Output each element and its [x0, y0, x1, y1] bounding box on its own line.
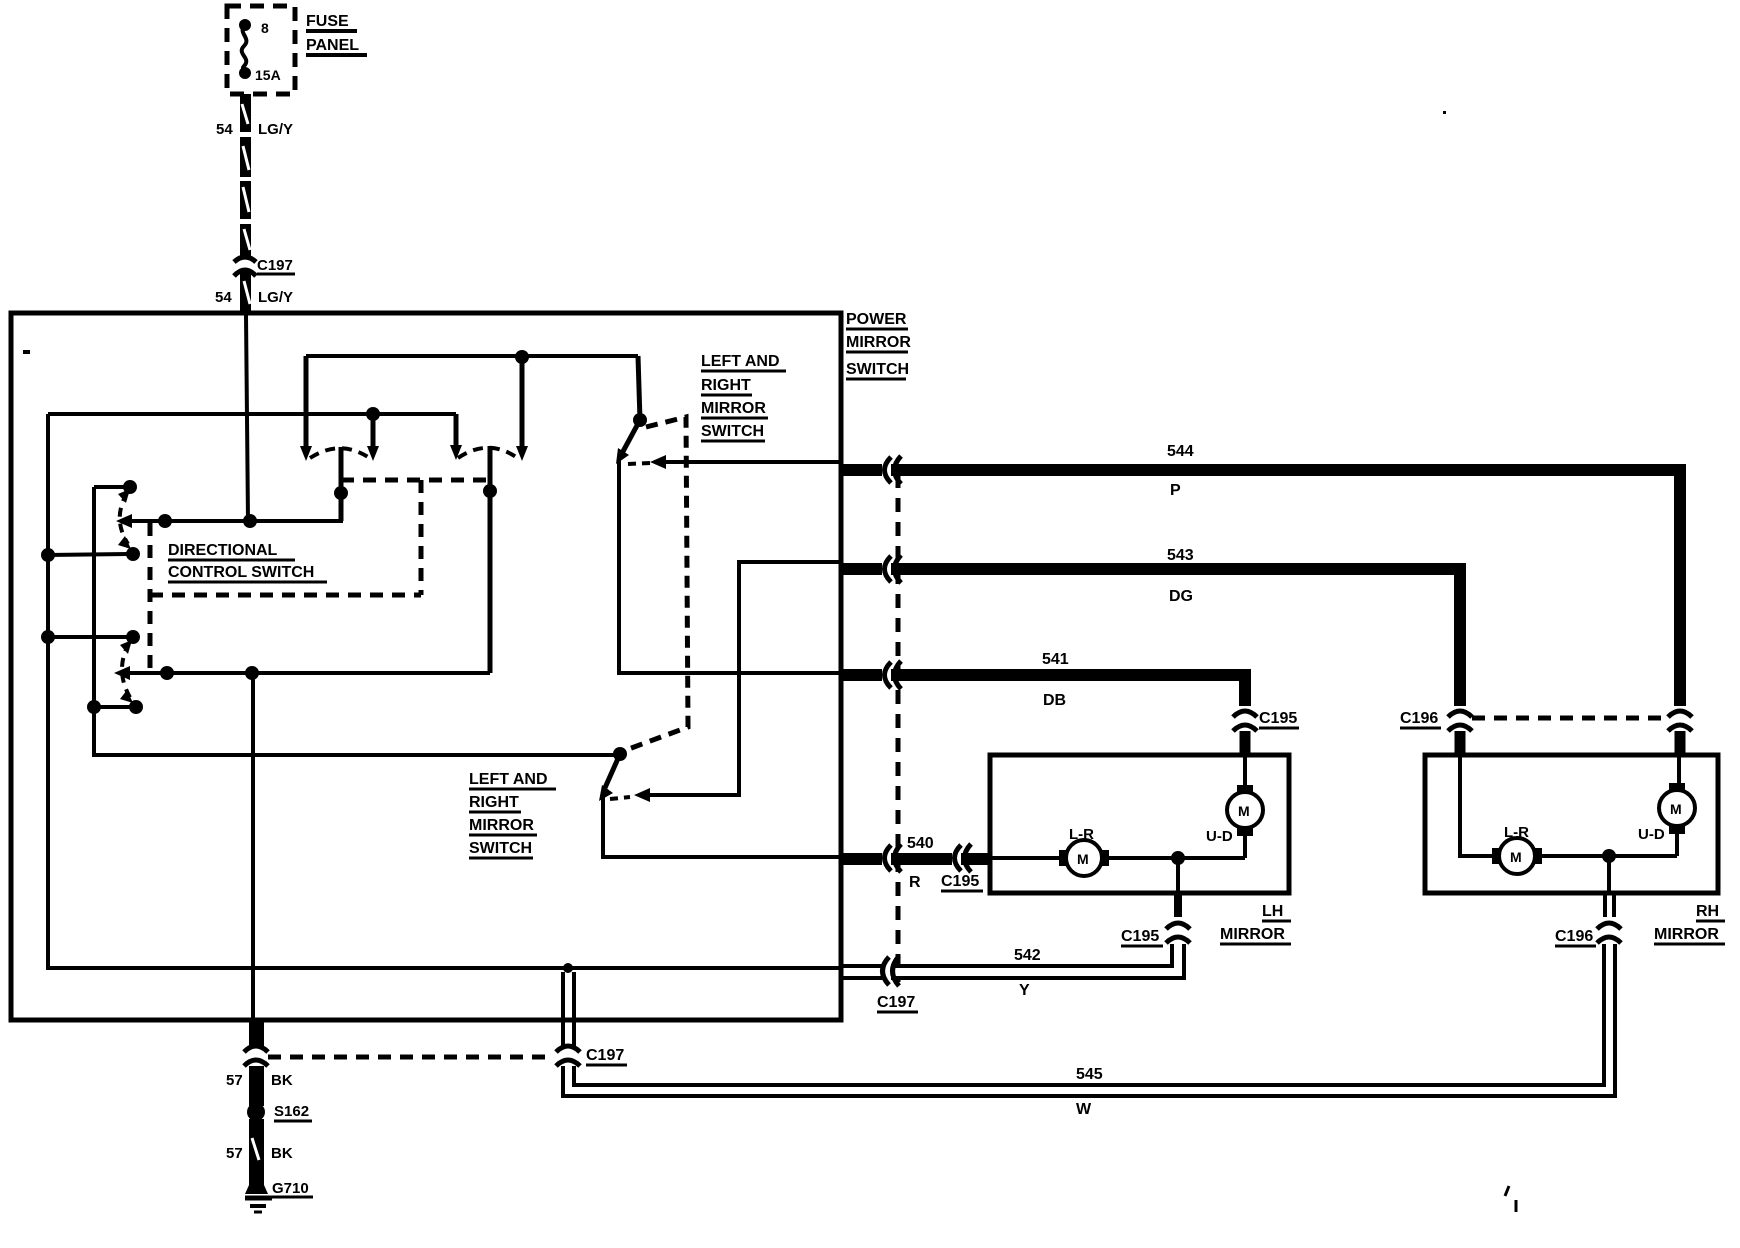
label POWER MIRROR SWITCH	[846, 311, 911, 379]
label C197 below 542	[877, 994, 918, 1012]
wire RH internal 543 to motor	[1460, 755, 1496, 856]
svg-text:R: R	[909, 874, 921, 891]
svg-text:LEFT AND: LEFT AND	[701, 353, 780, 370]
POWER MIRROR SWITCH box	[11, 313, 841, 1020]
wire wiper bus 1 y521	[116, 447, 341, 528]
label C195 at LH return	[1121, 928, 1163, 946]
label LEFT AND RIGHT MIRROR SWITCH (upper)	[701, 353, 786, 441]
svg-text:POWER: POWER	[846, 311, 907, 328]
wire 544 into RH box	[1677, 755, 1681, 785]
splice S162	[247, 1103, 312, 1121]
node LH junction	[1171, 851, 1185, 865]
wire left bus vertical x48	[48, 414, 841, 968]
svg-text:8: 8	[261, 20, 269, 36]
svg-text:U-D: U-D	[1206, 828, 1233, 845]
wire left contact y637	[48, 635, 133, 639]
wire 54 LG/Y fuse feed (hatched power wire)	[240, 94, 251, 315]
svg-text:542: 542	[1014, 947, 1041, 964]
wire contact stub to lower-left switch	[94, 705, 136, 709]
svg-text:MIRROR: MIRROR	[1654, 926, 1719, 943]
svg-text:L-R: L-R	[1504, 824, 1529, 841]
motor RH U-D	[1638, 783, 1695, 843]
label C197 at 545	[586, 1047, 627, 1065]
node 542 internal junction	[563, 963, 573, 973]
RH mirror box	[1425, 755, 1718, 893]
wire left fixed-contact feed vertical x94	[94, 487, 618, 755]
label RH MIRROR	[1654, 903, 1725, 944]
switch wiper arc upper-left	[118, 489, 131, 549]
node lower-left bottom contact	[129, 700, 143, 714]
node upper-left bottom contact	[126, 547, 140, 561]
mechanical linkage dashed (directional control switch)	[150, 480, 490, 672]
svg-text:MIRROR: MIRROR	[1220, 926, 1285, 943]
wire top contact bus y414	[48, 412, 456, 416]
svg-text:FUSE: FUSE	[306, 13, 349, 30]
connector C197 arcs on 542	[883, 956, 900, 986]
svg-text:S162: S162	[274, 1103, 309, 1120]
connector C196 arcs on 544 drop	[1668, 711, 1692, 755]
connector C197 on power feed	[234, 257, 295, 276]
wire dashed C196 link	[1472, 716, 1666, 721]
label FUSE PANEL	[306, 13, 367, 55]
svg-text:SWITCH: SWITCH	[701, 423, 764, 440]
svg-text:57: 57	[226, 1145, 243, 1162]
label C196	[1400, 710, 1441, 728]
svg-text:543: 543	[1167, 547, 1194, 564]
wire 541 into LH box	[1243, 755, 1247, 787]
svg-text:C196: C196	[1400, 710, 1438, 727]
svg-text:MIRROR: MIRROR	[846, 334, 911, 351]
fuse F1 15A	[239, 19, 281, 83]
node B on y414	[366, 407, 380, 421]
switch pivot 1	[334, 447, 348, 521]
wire 545 hollow upper segment to junction	[563, 972, 574, 1046]
wire contact stub C with arrow	[450, 414, 462, 460]
selector lower travel dashes	[610, 797, 630, 799]
switch wiper arc 2 (up-down, right pair)	[458, 448, 519, 459]
wire RH motor bus	[1538, 854, 1677, 858]
label C195 at 540	[941, 873, 983, 891]
node on x48 at 637	[41, 630, 55, 644]
wire 542 Y hollow	[841, 944, 1184, 978]
switch wiper arc lower-left	[120, 640, 133, 703]
svg-text:SWITCH: SWITCH	[846, 361, 909, 378]
svg-text:M: M	[1510, 849, 1522, 865]
wire 57 BK ground feed thick	[249, 1019, 264, 1188]
svg-text:DG: DG	[1169, 588, 1193, 605]
wire contact stub A with arrow	[300, 356, 312, 461]
svg-text:BK: BK	[271, 1072, 293, 1089]
selector linkage dashed	[626, 417, 688, 750]
svg-text:SWITCH: SWITCH	[469, 840, 532, 857]
wire RH return stub	[1607, 856, 1611, 893]
node on x48 at 555	[41, 548, 55, 562]
label 542 Y	[1014, 947, 1041, 999]
svg-text:54: 54	[216, 121, 233, 138]
svg-text:LEFT AND: LEFT AND	[469, 771, 548, 788]
switch pivot 2	[483, 446, 497, 673]
svg-text:LH: LH	[1262, 903, 1283, 920]
label LEFT AND RIGHT MIRROR SWITCH (lower)	[469, 771, 556, 858]
connector C196 on 543 drop	[1448, 711, 1472, 755]
wire 544 P thick	[841, 464, 1686, 706]
svg-text:M: M	[1670, 801, 1682, 817]
svg-text:L-R: L-R	[1069, 826, 1094, 843]
svg-text:C195: C195	[1259, 710, 1297, 727]
svg-text:BK: BK	[271, 1145, 293, 1162]
connector C197 arcs on 541	[885, 661, 902, 689]
label 544 P	[1167, 443, 1194, 499]
svg-text:544: 544	[1167, 443, 1194, 460]
svg-text:540: 540	[907, 835, 934, 852]
svg-text:Y: Y	[1019, 982, 1030, 999]
wire 541 DB thick	[841, 669, 1251, 706]
wire LH motor bus	[1105, 856, 1245, 860]
selector upper wiper (left-right mirror switch)	[616, 356, 647, 464]
connector C197 arcs on ground wire	[244, 1046, 268, 1066]
ground G710	[245, 1180, 313, 1212]
svg-text:MIRROR: MIRROR	[469, 817, 534, 834]
node left contact top	[123, 480, 137, 494]
label 545 W	[1076, 1066, 1103, 1118]
switch wiper arc 1 (up-down, left pair)	[310, 448, 371, 459]
svg-text:U-D: U-D	[1638, 826, 1665, 843]
node D on y356	[515, 350, 529, 364]
svg-text:MIRROR: MIRROR	[701, 400, 766, 417]
wire power feed vertical 54 inside switch	[246, 315, 248, 521]
label C196 at RH return	[1555, 928, 1596, 946]
svg-text:LG/Y: LG/Y	[258, 121, 293, 138]
label 543 DG	[1167, 547, 1194, 605]
svg-text:RIGHT: RIGHT	[701, 377, 751, 394]
label LH MIRROR	[1220, 903, 1291, 944]
motor RH L-R	[1492, 824, 1542, 874]
svg-text:M: M	[1238, 803, 1250, 819]
selector upper travel dashes	[628, 463, 650, 464]
connector C197 arcs on 545	[556, 1046, 580, 1066]
wire upper contact bus y356	[306, 354, 638, 358]
node x94 branch	[87, 700, 101, 714]
wire ground vertical inside switch	[251, 673, 255, 1019]
svg-text:W: W	[1076, 1101, 1092, 1118]
selector lower wiper	[599, 754, 620, 801]
svg-text:RIGHT: RIGHT	[469, 794, 519, 811]
connector C197 arcs on 544	[885, 456, 902, 484]
svg-text:M: M	[1077, 851, 1089, 867]
motor LH L-R	[1059, 826, 1109, 876]
label 54 LG/Y upper	[216, 121, 293, 138]
svg-text:57: 57	[226, 1072, 243, 1089]
label 54 LG/Y lower	[215, 289, 293, 306]
svg-text:C197: C197	[586, 1047, 624, 1064]
svg-text:CONTROL SWITCH: CONTROL SWITCH	[168, 564, 314, 581]
label 540 R	[907, 835, 934, 891]
wire 543 internal with contact arrow	[634, 562, 841, 802]
wire 540 internal from lower selector pivot	[603, 797, 841, 857]
svg-text:P: P	[1170, 482, 1181, 499]
svg-text:C197: C197	[877, 994, 915, 1011]
label C195 at 541 drop	[1259, 710, 1299, 728]
svg-text:545: 545	[1076, 1066, 1103, 1083]
wire contact stub B with arrow	[367, 414, 379, 461]
wire contact stub D with arrow	[516, 357, 528, 461]
svg-text:C197: C197	[257, 257, 293, 274]
wire 544 internal y462 with contact arrow	[650, 455, 841, 469]
connector C195 arcs on 540	[955, 844, 972, 872]
wire 543 DG thick	[841, 563, 1466, 706]
svg-text:DIRECTIONAL: DIRECTIONAL	[168, 542, 278, 559]
svg-text:541: 541	[1042, 651, 1069, 668]
connector C195 on 541 drop	[1233, 711, 1257, 755]
node RH junction	[1602, 849, 1616, 863]
svg-text:C195: C195	[1121, 928, 1159, 945]
connector C195 on LH return	[1166, 893, 1190, 943]
wire LH internal 540 to motor	[990, 856, 1063, 860]
connector plane C197 dashed vertical	[896, 474, 901, 982]
connector C196 on RH return	[1597, 893, 1621, 943]
connector C197 arcs on 540	[885, 844, 902, 872]
svg-text:54: 54	[215, 289, 232, 306]
svg-text:C195: C195	[941, 873, 979, 890]
node lower-left top contact	[126, 630, 140, 644]
wire wiper bus 2 y673	[114, 666, 490, 680]
label DIRECTIONAL CONTROL SWITCH	[168, 542, 327, 582]
scan speckle near box top-left	[23, 350, 30, 354]
wire dashed C197 link	[268, 1055, 552, 1060]
node lower selector top contact	[613, 747, 627, 761]
wire 540 R thick	[841, 853, 990, 865]
connector C197 arcs on 543	[885, 555, 902, 583]
wire RH U-D drop	[1675, 830, 1679, 856]
svg-text:C196: C196	[1555, 928, 1593, 945]
svg-text:G710: G710	[272, 1180, 309, 1197]
svg-text:LG/Y: LG/Y	[258, 289, 293, 306]
svg-text:RH: RH	[1696, 903, 1719, 920]
stray pen marks bottom right	[1505, 1186, 1516, 1212]
wire 541 internal from upper wiper	[619, 460, 841, 673]
node power junction on wiper bus	[243, 514, 257, 528]
fuse panel dashed box	[227, 6, 295, 94]
wire LH return stub	[1176, 858, 1180, 893]
scan speckle top right	[1443, 111, 1446, 114]
wire 545 W hollow	[563, 944, 1615, 1096]
wire left contact y555	[48, 554, 133, 555]
label 541 DB	[1042, 651, 1069, 709]
LH mirror box	[990, 755, 1289, 893]
svg-text:15A: 15A	[255, 67, 281, 83]
svg-text:PANEL: PANEL	[306, 37, 359, 54]
svg-text:DB: DB	[1043, 692, 1066, 709]
label 57 BK lower	[226, 1145, 293, 1162]
label 57 BK upper	[226, 1072, 293, 1089]
wire LH U-D drop	[1243, 832, 1247, 858]
motor LH U-D	[1206, 785, 1263, 845]
